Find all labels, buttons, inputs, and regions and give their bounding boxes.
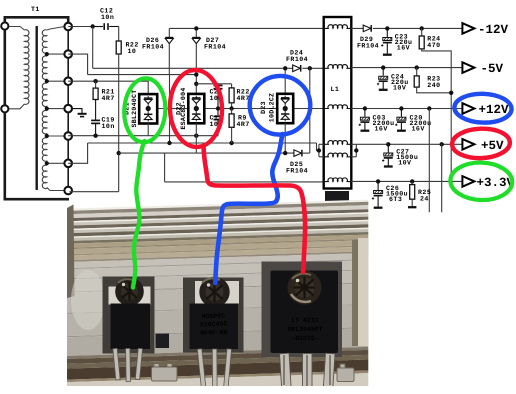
svg-text:10: 10 — [128, 48, 137, 55]
wire: AC rail B (y=74.6) — [88, 74, 197, 76]
annotation: blue circle around D23 — [248, 74, 313, 137]
node: return line junction — [449, 91, 453, 95]
node: left bracket junction — [317, 148, 321, 152]
secondary tap bus — [67, 26, 69, 195]
capacitor C26 — [372, 181, 383, 207]
svg-text:16V: 16V — [375, 126, 388, 133]
svg-text:T1: T1 — [31, 6, 40, 13]
wire: tap3 rail to D21 — [68, 81, 148, 94]
svg-text:10DL2CZ: 10DL2CZ — [269, 93, 276, 122]
node: drop junction on +5 rail — [167, 141, 171, 145]
svg-text:10V: 10V — [398, 160, 411, 167]
svg-text:4R7: 4R7 — [237, 95, 250, 102]
node: +12V rail / return drop junction — [427, 106, 431, 110]
svg-text:470: 470 — [427, 42, 440, 49]
wire: R23 return to common return line — [417, 87, 452, 93]
svg-text:MOSPEC: MOSPEC — [202, 313, 226, 321]
left regulator legs — [113, 348, 143, 381]
capacitor C13 — [214, 109, 223, 136]
svg-text:S16C45C: S16C45C — [200, 321, 228, 329]
right regulator legs — [280, 353, 335, 389]
wire: rectified +5 rail (y=143) — [88, 142, 317, 144]
middle regulator clip — [195, 281, 239, 304]
resistor R21 (4R7) — [95, 81, 97, 88]
svg-text:-DIOIG-: -DIOIG- — [291, 335, 318, 342]
wire: +3.3 rectified rail (y=181.9) to L1 — [165, 181, 324, 183]
wire: snubber/3.3V return rail (y=153.1) — [119, 152, 294, 154]
node: D23 top / AC rail A junction — [283, 66, 287, 70]
wire: C21 feed rail (y=83.8) — [196, 83, 231, 85]
node: center rail / C21 junction — [216, 106, 220, 110]
node: R21 top junction — [93, 79, 97, 83]
right regulator (SBL3045PT) mounting plate — [262, 262, 343, 358]
glare on face left — [71, 270, 105, 330]
middle regulator screw — [199, 277, 229, 307]
node: D22 bottom junction — [194, 134, 198, 138]
rectifier D22 ESAC83-004 (boxed dual diode) — [188, 94, 204, 123]
wire: AC rail A (y=68.3) to L1 — [93, 67, 324, 69]
svg-text:10n: 10n — [102, 123, 115, 130]
wire: +5V return drop — [441, 144, 443, 212]
middle regulator (MOSPEC S16C45C) mounting plate — [183, 278, 244, 353]
wire: tap6 riser to +5 rect rail — [68, 143, 87, 163]
small metal clip on board (left) — [152, 364, 178, 382]
node: C23 junction — [385, 26, 389, 30]
capacitor C21 — [214, 84, 223, 109]
main center rail (y=108.5) D21 to L1 — [148, 108, 324, 110]
wire: +3.3V rail from L1 to output — [351, 180, 462, 182]
annotation: blue wire D23 to middle regulator — [215, 134, 282, 283]
wire: -5V rail from L1 to output — [351, 67, 462, 69]
wire: R24 return to common return line — [422, 49, 452, 182]
diode D25 — [294, 150, 310, 157]
svg-text:4R7: 4R7 — [237, 121, 250, 128]
right side beige wall — [358, 238, 369, 346]
svg-text:FR104: FR104 — [286, 56, 308, 63]
middle regulator body with markings — [190, 304, 239, 350]
wire: tap5 rail (y=135.7) — [68, 135, 218, 137]
node: right bracket junction — [354, 148, 358, 152]
svg-text:6T3: 6T3 — [389, 196, 402, 203]
output arrow -5V — [462, 62, 474, 73]
wire: C12 node down to AC rail A — [92, 27, 94, 69]
svg-text:FR104: FR104 — [142, 44, 164, 51]
transformer core — [36, 26, 38, 190]
svg-text:-12V: -12V — [478, 23, 509, 37]
secondary tap terminals (7 circles) — [64, 23, 72, 195]
wire: tap7 return rail — [70, 191, 119, 193]
transformer primary winding — [8, 27, 29, 109]
transformer secondary windings — [42, 27, 64, 191]
capacitor C23 — [381, 28, 392, 54]
annotation: blue circle around +12V output — [454, 93, 512, 124]
left regulator screw — [115, 277, 144, 306]
wire: L1 winding 4/5 left bracket — [319, 144, 324, 157]
svg-text:D23: D23 — [260, 101, 267, 114]
wire: D24/D25 cathode link — [309, 68, 311, 153]
output arrow +3.3V — [462, 176, 474, 187]
annotation: red circle around +5V output — [452, 128, 511, 159]
node: D27 top junction — [194, 26, 198, 30]
right regulator body — [271, 271, 339, 354]
svg-text:240: 240 — [427, 82, 440, 89]
svg-text:+12V: +12V — [479, 103, 510, 117]
resistor R24 — [419, 28, 424, 49]
transformer primary terminal (bottom) — [1, 105, 8, 112]
svg-text:10V: 10V — [393, 85, 406, 92]
node: R25 junction — [410, 179, 414, 183]
node: +3.3V rail / return junction — [449, 179, 453, 183]
inductor L1 (multi-winding choke) — [324, 17, 352, 189]
svg-text:L1: L1 — [331, 86, 340, 93]
capacitor C24 — [377, 68, 388, 90]
svg-text:SBL2040CT: SBL2040CT — [131, 90, 138, 128]
annotation: red wire D22 to right regulator — [204, 147, 306, 272]
svg-text:FR104: FR104 — [357, 43, 379, 50]
wire: D23 bottom to return rail — [284, 123, 286, 153]
svg-text:+5V: +5V — [481, 139, 504, 153]
svg-text:4R7: 4R7 — [102, 95, 115, 102]
node: C20 junction — [399, 106, 403, 110]
dark object behind heatsink — [325, 191, 349, 203]
wire: +12V rail from L1 to output — [351, 108, 462, 110]
output arrow -12V — [462, 23, 474, 34]
annotation: green circle around +3.3V output — [450, 162, 513, 202]
svg-text:24: 24 — [420, 196, 429, 203]
right side wall seam — [352, 240, 358, 346]
wire: L1 winding 4/5 right bracket — [351, 144, 356, 157]
wire: C12 to R22 — [118, 27, 120, 42]
node: C24 junction — [381, 65, 385, 69]
wire: D22 bottom to tap5 rail and return rail — [195, 123, 197, 153]
svg-text:-5V: -5V — [481, 62, 504, 76]
node: R24 junction — [420, 26, 424, 30]
resistor R22 (4R7) — [229, 84, 234, 109]
svg-text:FR104: FR104 — [204, 44, 226, 51]
node: C03 junction — [363, 106, 367, 110]
right regulator markings — [287, 317, 322, 342]
capacitor C12 — [93, 23, 119, 30]
node: D24 cathode / L1 junction — [308, 66, 312, 70]
svg-text:10n: 10n — [101, 14, 114, 21]
middle regulator legs — [197, 349, 231, 392]
wire: -12V rail from L1 to output — [351, 27, 462, 29]
annotation: red circle around D22 — [169, 69, 224, 148]
capacitor C27 — [382, 144, 393, 166]
wire: AC rail B drop to +5 rail — [169, 75, 171, 143]
heatsink fins and faces (tilted) — [58, 199, 382, 394]
capacitor C03 — [359, 109, 370, 131]
resistor R23 — [414, 68, 419, 88]
annotation: green wire D21 to left regulator — [133, 141, 145, 288]
secondary winding junction dots — [45, 52, 49, 165]
rectifier D21 SBL2040CT (boxed dual diode) — [139, 94, 157, 123]
wire: +5V rail from L1 bracket to output — [356, 143, 462, 145]
ground symbol at center tap — [72, 109, 87, 117]
node: R9 bottom junction — [229, 141, 233, 145]
wire: +3.3 rail riser from snubber rail — [164, 153, 166, 182]
annotation: green circle around D21 — [123, 77, 167, 143]
diode D24 — [293, 65, 301, 72]
node: C27 junction — [386, 142, 390, 146]
wire: tap1 to C12 node — [68, 26, 93, 28]
node: D27/C21 rail junction — [194, 82, 198, 86]
svg-text:LT 4231: LT 4231 — [291, 317, 318, 324]
diode D29 — [363, 25, 371, 32]
node: center rail / R22-R9 junction — [229, 106, 233, 110]
small metal clip on board (right) — [337, 364, 354, 382]
heatsink left edge — [67, 205, 75, 299]
rectifier D23 10DL2CZ (boxed dual diode) — [277, 68, 293, 123]
wire: tap2 to AC rail B — [68, 54, 87, 75]
svg-text:16V: 16V — [397, 45, 410, 52]
wire: D21 bottom to tap5 rail — [147, 124, 149, 136]
resistor R22 (10) — [116, 41, 121, 54]
left regulator body — [111, 304, 151, 350]
resistor R9 — [229, 109, 234, 144]
transformer T1 primary frame (thick) — [5, 17, 69, 199]
output arrow +5V — [462, 139, 474, 150]
transformer primary terminal (top) — [1, 22, 8, 29]
svg-text:16V: 16V — [412, 126, 425, 133]
wire: R22 down to snubber rail — [118, 54, 120, 192]
svg-text:ESAC83-004: ESAC83-004 — [180, 87, 187, 129]
node: C19 bottom junction — [93, 134, 97, 138]
small black component right of left regulator — [156, 334, 170, 349]
node: R23 junction — [415, 65, 419, 69]
node: C26 junction — [376, 179, 380, 183]
output arrow +12V — [462, 103, 474, 114]
capacitor C20 — [395, 109, 406, 131]
wire: +5 rail into L1 winding 4/5 bracket — [317, 143, 319, 151]
resistor R25 — [408, 181, 416, 207]
capacitor C19 — [91, 100, 100, 136]
node: D23 bottom / return rail junction — [283, 151, 287, 155]
node: C12 input junction — [91, 24, 95, 28]
node: R22/snubber rail junction — [117, 151, 121, 155]
diode D27 — [192, 28, 200, 94]
svg-text:FR104: FR104 — [286, 168, 308, 175]
wire: -12V rectified rail (y=28.4) D26 to L1 — [169, 27, 323, 29]
svg-text:SBL3045PT: SBL3045PT — [287, 326, 322, 333]
node: D27/AC rail B junction — [194, 72, 198, 76]
left regulator (TO-220) mounting plate — [103, 277, 155, 354]
right regulator screw — [288, 271, 322, 305]
diode D26 — [165, 28, 173, 74]
wire: +12V return drop — [428, 109, 430, 213]
node: +5V rail / return drop junction — [440, 142, 444, 146]
left regulator clip — [109, 287, 151, 305]
svg-text:MF9F-NN: MF9F-NN — [200, 329, 228, 337]
